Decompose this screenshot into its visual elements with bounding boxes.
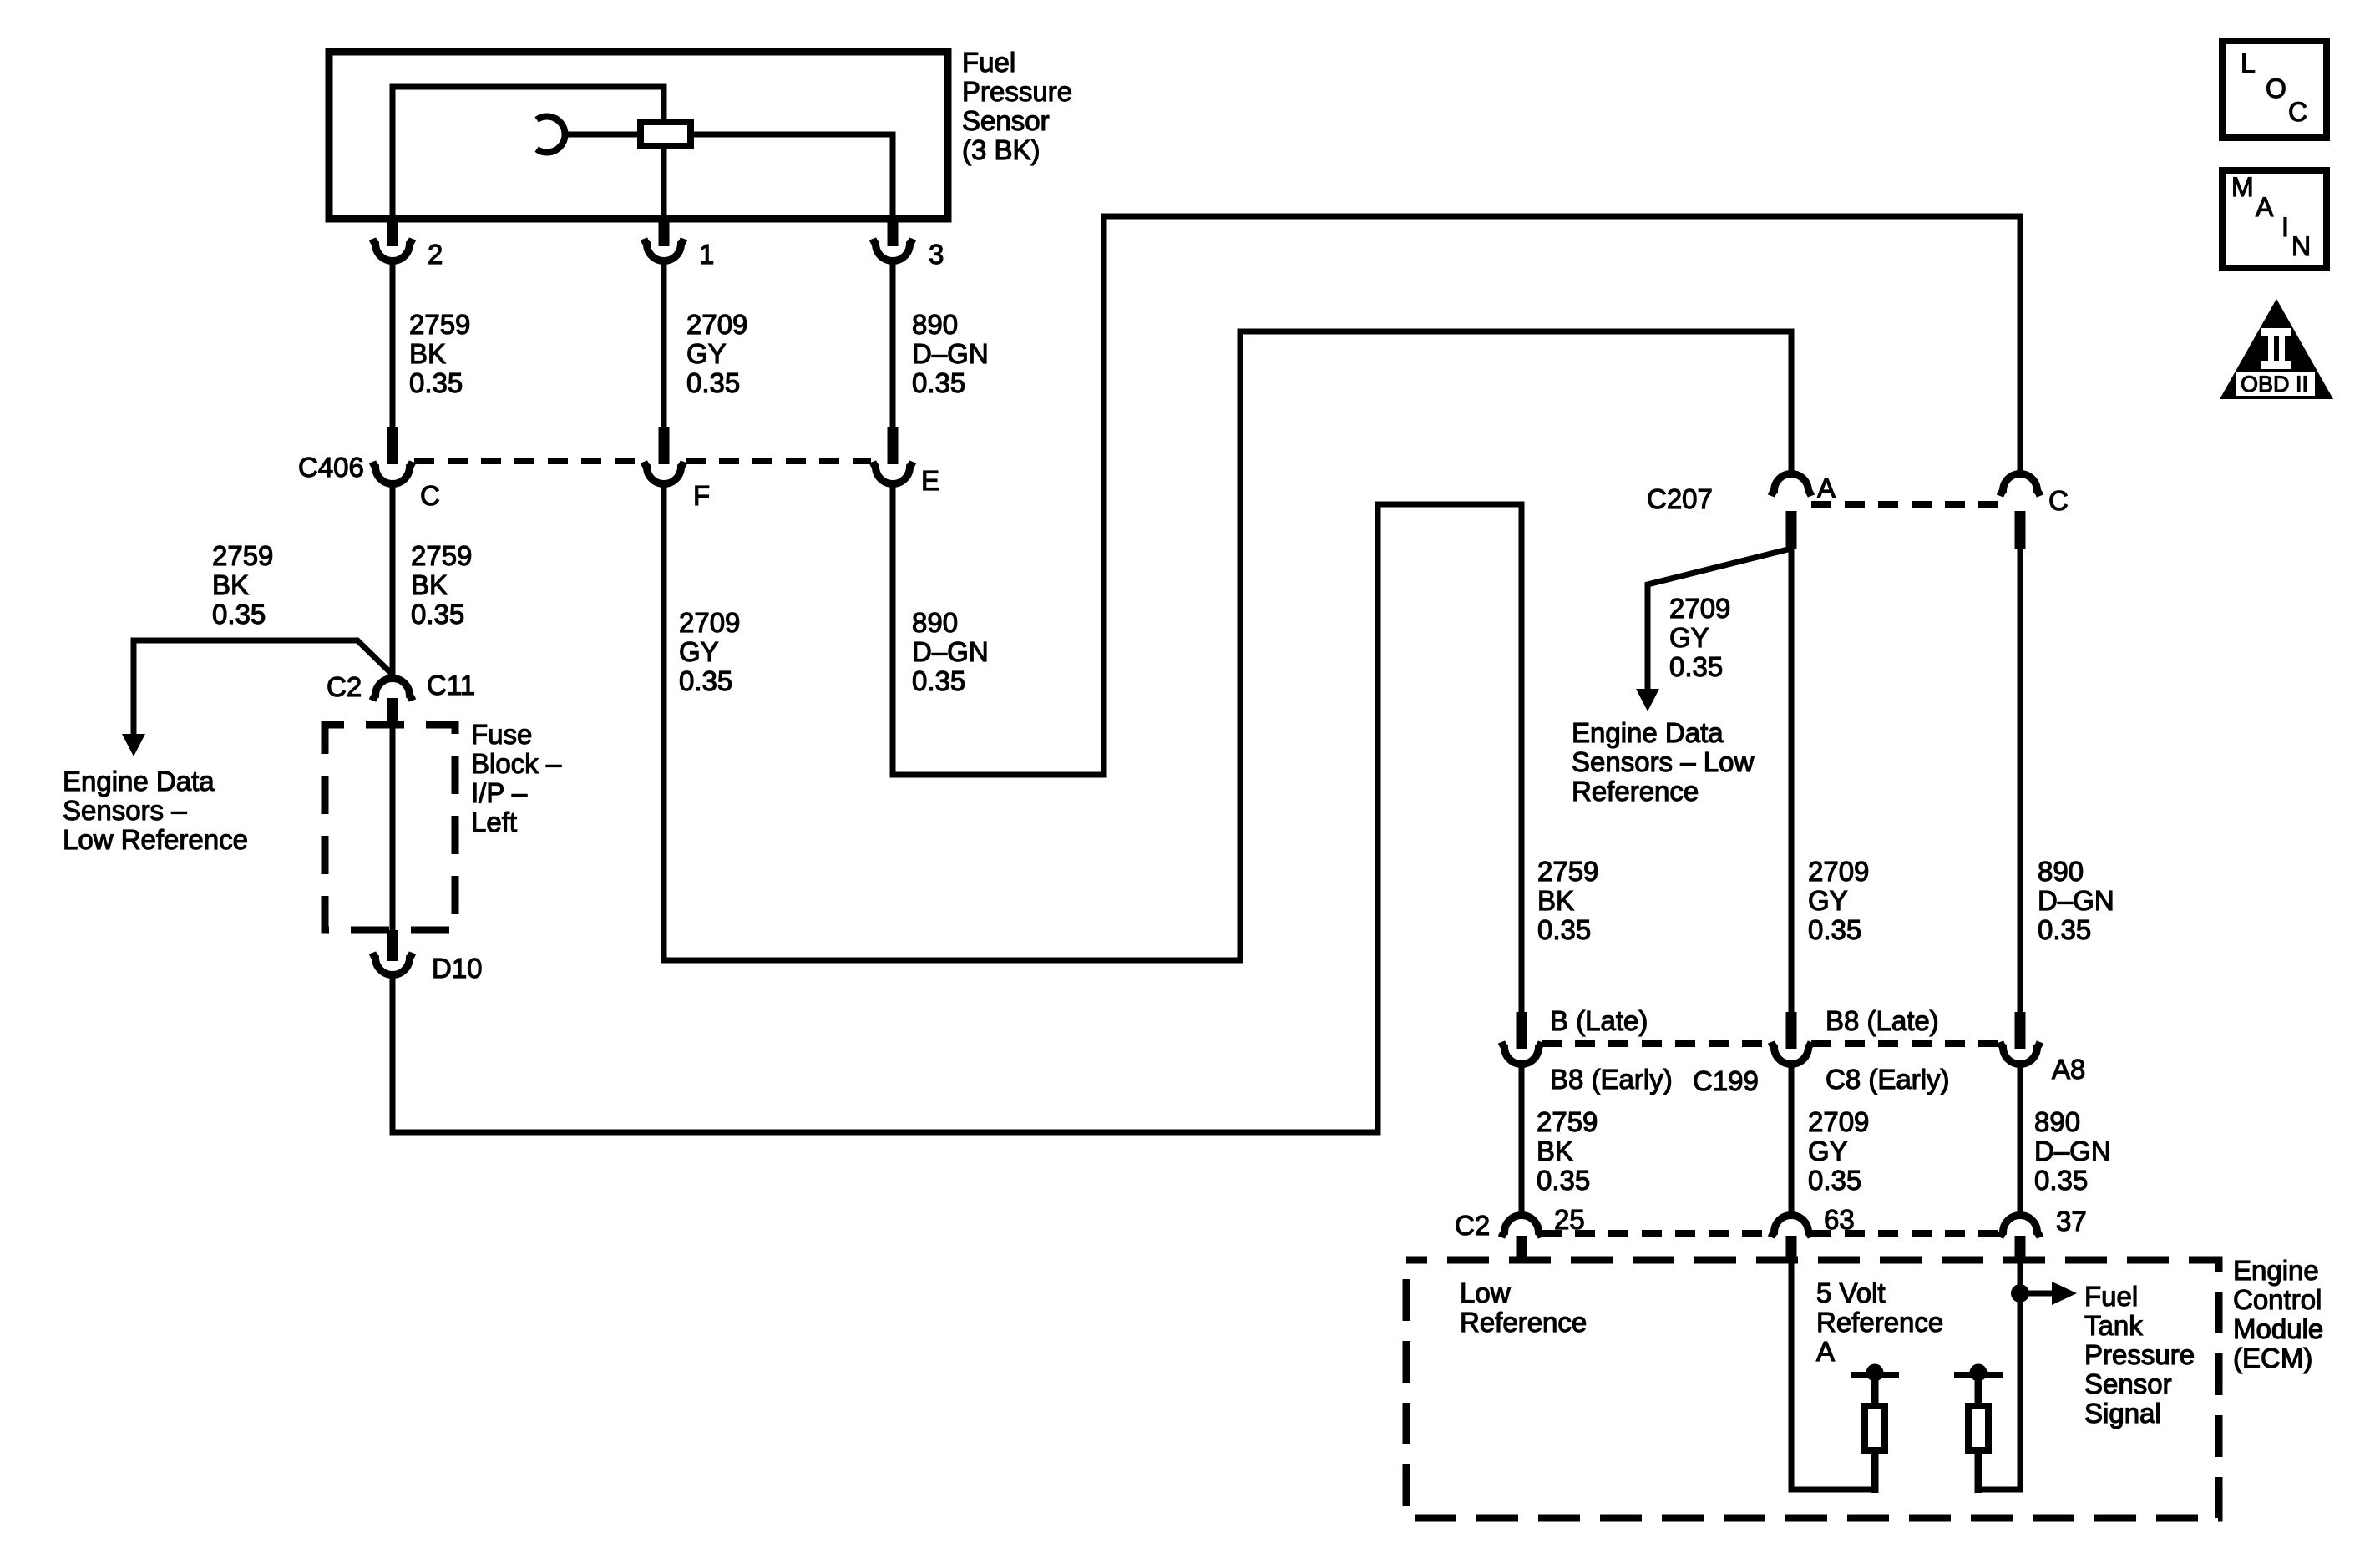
label C199 bbox=[1693, 1065, 1759, 1096]
label C406 pin E bbox=[921, 465, 939, 496]
svg-text:2: 2 bbox=[428, 239, 443, 270]
wire 2709 GY C406-F to C207-A bbox=[664, 331, 1791, 960]
sensor element rectangle bbox=[641, 122, 691, 146]
branch wire to engine data sensors low reference bbox=[134, 640, 392, 735]
svg-text:0.35: 0.35 bbox=[212, 599, 266, 630]
label B (Late) bbox=[1550, 1005, 1648, 1036]
C199 terminal at x=2145 bbox=[1771, 1042, 1811, 1065]
svg-text:GY: GY bbox=[686, 338, 727, 369]
wire 2759 BK C406-C down to C11 bbox=[390, 486, 396, 676]
C207 pin C terminal bbox=[2000, 474, 2040, 497]
wire 2709 GY C199-B8 to ECM-63 bbox=[1789, 1066, 1795, 1213]
svg-text:BK: BK bbox=[1537, 1136, 1573, 1166]
OBD II triangle symbol bbox=[2220, 299, 2333, 399]
engine control module dashed box bbox=[1406, 1260, 2219, 1518]
svg-text:O: O bbox=[2266, 73, 2286, 104]
svg-text:GY: GY bbox=[1669, 622, 1709, 653]
svg-text:I: I bbox=[2281, 212, 2289, 242]
svg-text:0.35: 0.35 bbox=[912, 665, 965, 696]
resistor R2 lower lead bbox=[1975, 1454, 1982, 1493]
C207 pin A stub bbox=[1786, 511, 1797, 549]
svg-text:B8 (Late): B8 (Late) bbox=[1826, 1005, 1939, 1036]
ECM C2 stub at x=2419 bbox=[2015, 1236, 2026, 1263]
svg-text:B (Late): B (Late) bbox=[1550, 1005, 1648, 1036]
resistor R2 body bbox=[1968, 1406, 1988, 1450]
svg-text:GY: GY bbox=[679, 636, 719, 667]
MAIN letters bbox=[2231, 172, 2311, 261]
svg-text:A: A bbox=[2256, 192, 2274, 222]
label A8 bbox=[2052, 1054, 2085, 1085]
svg-text:D–GN: D–GN bbox=[2038, 885, 2114, 916]
wire 890 D-GN C207-C to C199-A8 bbox=[2018, 549, 2023, 1014]
label Engine Data Sensors - Low Reference bbox=[63, 766, 248, 855]
C406 pin F stub bbox=[659, 427, 670, 464]
svg-text:Pressure: Pressure bbox=[962, 76, 1072, 107]
svg-text:2759: 2759 bbox=[212, 540, 273, 571]
svg-text:890: 890 bbox=[2038, 856, 2084, 887]
MAIN legend box bbox=[2222, 170, 2327, 268]
svg-text:Engine: Engine bbox=[2233, 1255, 2319, 1286]
OBD II banner bbox=[2236, 372, 2315, 397]
connector C2 dashed line left bbox=[1542, 1230, 1771, 1237]
svg-text:A: A bbox=[1816, 1336, 1835, 1367]
svg-text:I/P –: I/P – bbox=[471, 777, 528, 808]
sensor internal wire pin2 to transducer bbox=[392, 87, 664, 219]
svg-text:Signal: Signal bbox=[2084, 1398, 2161, 1429]
svg-text:Reference: Reference bbox=[1816, 1307, 1943, 1338]
wire ECM pin37 to resistor R2 bbox=[1978, 1263, 2020, 1490]
svg-text:C207: C207 bbox=[1647, 483, 1713, 514]
label 2709 GY 0.35 (F wire) bbox=[679, 607, 740, 696]
svg-text:Sensor: Sensor bbox=[962, 105, 1050, 136]
svg-text:A8: A8 bbox=[2052, 1054, 2085, 1085]
label 890 D-GN 0.35 (to C199-A8) bbox=[2038, 856, 2114, 945]
label C11 bbox=[427, 670, 475, 701]
label 2759 BK 0.35 (branch) bbox=[212, 540, 273, 630]
svg-text:Fuse: Fuse bbox=[471, 719, 532, 750]
fuse block connector D10 stub bbox=[387, 930, 398, 961]
svg-text:63: 63 bbox=[1824, 1204, 1855, 1235]
sensor internal wire element to pin1 bbox=[661, 149, 667, 219]
label 890 D-GN 0.35 (pin3 wire) bbox=[912, 309, 989, 398]
svg-text:0.35: 0.35 bbox=[2038, 914, 2091, 945]
svg-text:Module: Module bbox=[2233, 1313, 2323, 1344]
label Fuse Block - I/P - Left bbox=[471, 719, 562, 837]
label Low Reference bbox=[1460, 1277, 1587, 1338]
svg-text:BK: BK bbox=[1537, 885, 1574, 916]
svg-text:Engine Data: Engine Data bbox=[63, 766, 215, 797]
label C207 pin A bbox=[1817, 473, 1836, 503]
svg-text:0.35: 0.35 bbox=[1808, 914, 1861, 945]
connector C406 dashed line right bbox=[686, 458, 871, 464]
svg-text:C: C bbox=[2048, 485, 2069, 516]
svg-text:Sensors – Low: Sensors – Low bbox=[1572, 746, 1754, 777]
svg-text:Block –: Block – bbox=[471, 748, 562, 779]
svg-text:0.35: 0.35 bbox=[1669, 651, 1723, 682]
svg-text:25: 25 bbox=[1554, 1204, 1585, 1235]
ECM C2 terminal at x=1822 bbox=[1501, 1216, 1542, 1238]
C207 pin C stub bbox=[2015, 511, 2026, 549]
resistor R1 lower lead bbox=[1871, 1454, 1879, 1493]
svg-text:Pressure: Pressure bbox=[2084, 1339, 2195, 1370]
svg-text:2709: 2709 bbox=[1808, 1106, 1869, 1137]
C406 pin C terminal bbox=[372, 462, 413, 484]
C199 terminal at x=2419 bbox=[2000, 1042, 2040, 1065]
svg-text:0.35: 0.35 bbox=[912, 367, 965, 398]
svg-text:C8 (Early): C8 (Early) bbox=[1826, 1064, 1950, 1095]
connector C199 dashed line right bbox=[1811, 1040, 2000, 1047]
label 2759 BK 0.35 (pin2 wire) bbox=[409, 309, 470, 398]
svg-text:BK: BK bbox=[411, 569, 448, 600]
wire 890 D-GN C199-A8 to ECM-37 bbox=[2018, 1066, 2023, 1213]
C199 terminal at x=1822 bbox=[1501, 1042, 1542, 1065]
svg-text:Left: Left bbox=[471, 807, 517, 837]
connector C406 dashed line left bbox=[414, 458, 642, 464]
label C207 bbox=[1647, 483, 1713, 514]
fuel pressure sensor box bbox=[329, 52, 948, 219]
sensor pin 1 stub bbox=[659, 219, 670, 246]
sensor pin 1 terminal bbox=[644, 239, 684, 261]
sensor internal wire element to pin3 bbox=[694, 134, 893, 219]
label C8 (Early) bbox=[1826, 1064, 1950, 1095]
svg-text:Reference: Reference bbox=[1460, 1307, 1587, 1338]
svg-text:2709: 2709 bbox=[1669, 593, 1730, 624]
svg-text:2709: 2709 bbox=[1808, 856, 1869, 887]
junction dot fuel tank pressure sensor signal bbox=[2011, 1284, 2029, 1303]
LOC letters bbox=[2241, 48, 2307, 127]
svg-text:Sensors –: Sensors – bbox=[63, 795, 187, 826]
svg-text:A: A bbox=[1817, 473, 1836, 503]
svg-text:0.35: 0.35 bbox=[409, 367, 463, 398]
label 2759 BK 0.35 (right of wire) bbox=[411, 540, 472, 630]
svg-text:C199: C199 bbox=[1693, 1065, 1759, 1096]
svg-text:0.35: 0.35 bbox=[1537, 1165, 1590, 1196]
label Engine Data Sensors - Low Reference (right) bbox=[1572, 717, 1754, 807]
connector C2 dashed line right bbox=[1811, 1230, 2000, 1237]
svg-text:(3 BK): (3 BK) bbox=[962, 134, 1041, 165]
svg-text:2709: 2709 bbox=[679, 607, 740, 638]
resistor R2 5V rail bar bbox=[1954, 1372, 2003, 1378]
svg-text:2759: 2759 bbox=[1537, 1106, 1598, 1137]
svg-text:890: 890 bbox=[912, 309, 958, 340]
svg-text:Low Reference: Low Reference bbox=[63, 824, 248, 855]
junction dot R1 bbox=[1866, 1364, 1884, 1382]
svg-text:Sensor: Sensor bbox=[2084, 1368, 2172, 1399]
pin label 3 bbox=[929, 239, 944, 270]
svg-text:Fuel: Fuel bbox=[962, 47, 1015, 78]
label C406 pin F bbox=[693, 480, 710, 511]
C207 pin A terminal bbox=[1771, 474, 1811, 497]
svg-text:890: 890 bbox=[2034, 1106, 2080, 1137]
svg-text:2759: 2759 bbox=[1537, 856, 1598, 887]
wire 890 D-GN pin3 to C406-E bbox=[890, 263, 896, 431]
ECM C2 stub at x=1822 bbox=[1517, 1236, 1527, 1263]
svg-text:890: 890 bbox=[912, 607, 958, 638]
ECM C2 terminal at x=2145 bbox=[1771, 1216, 1811, 1238]
svg-text:0.35: 0.35 bbox=[679, 665, 732, 696]
label Fuel Pressure Sensor (3 BK) bbox=[962, 47, 1072, 165]
connector C199 dashed line left bbox=[1542, 1040, 1771, 1047]
svg-text:Engine Data: Engine Data bbox=[1572, 717, 1724, 748]
svg-text:Fuel: Fuel bbox=[2084, 1281, 2138, 1312]
label C2 (fuse block connector) bbox=[327, 671, 362, 702]
svg-text:D–GN: D–GN bbox=[912, 338, 989, 369]
svg-text:Reference: Reference bbox=[1572, 776, 1699, 807]
svg-text:37: 37 bbox=[2056, 1206, 2087, 1237]
junction dot R2 bbox=[1970, 1364, 1988, 1382]
svg-text:BK: BK bbox=[212, 569, 249, 600]
svg-text:Tank: Tank bbox=[2084, 1310, 2143, 1341]
svg-text:GY: GY bbox=[1808, 885, 1848, 916]
label 2709 GY 0.35 (pin1 wire) bbox=[686, 309, 747, 398]
svg-text:M: M bbox=[2231, 172, 2254, 202]
sensor transducer arc bbox=[537, 117, 565, 153]
svg-text:0.35: 0.35 bbox=[2034, 1165, 2088, 1196]
label B8 (Late) bbox=[1826, 1005, 1939, 1036]
pin label 1 bbox=[699, 239, 714, 270]
label 2709 GY 0.35 (to C199-B8) bbox=[1808, 856, 1869, 945]
wire 2709 GY pin1 to C406-F bbox=[661, 263, 667, 431]
sensor pin 3 terminal bbox=[873, 239, 913, 261]
ECM C2 stub at x=2145 bbox=[1786, 1236, 1797, 1263]
svg-text:OBD II: OBD II bbox=[2241, 372, 2308, 397]
fuse block dashed box bbox=[325, 725, 455, 930]
wire ECM pin63 to resistor R1 bbox=[1791, 1263, 1875, 1490]
svg-text:(ECM): (ECM) bbox=[2233, 1343, 2312, 1373]
label pin 63 bbox=[1824, 1204, 1855, 1235]
svg-text:5 Volt: 5 Volt bbox=[1816, 1277, 1886, 1308]
C406 pin E stub bbox=[888, 427, 899, 464]
svg-text:2759: 2759 bbox=[409, 309, 470, 340]
arrowhead engine data sensors low reference bbox=[122, 734, 145, 756]
wire 2759 BK pin2 to C406-C bbox=[390, 263, 396, 431]
branch wire to engine data sensors low reference (right) bbox=[1648, 549, 1791, 690]
svg-text:L: L bbox=[2241, 48, 2256, 78]
svg-text:C406: C406 bbox=[298, 452, 364, 483]
fuse block connector C11 stub bbox=[387, 698, 398, 725]
svg-text:0.35: 0.35 bbox=[1537, 914, 1591, 945]
C406 pin F terminal bbox=[644, 462, 684, 484]
label pin 25 bbox=[1554, 1204, 1585, 1235]
resistor R1 upper lead bbox=[1871, 1375, 1879, 1403]
svg-text:Control: Control bbox=[2233, 1284, 2322, 1315]
wire 2759 BK D10 to C199-B bbox=[392, 504, 1522, 1132]
svg-text:D10: D10 bbox=[432, 953, 483, 984]
label 890 D-GN 0.35 (to ECM 37) bbox=[2034, 1106, 2111, 1196]
C199 stub at x=2145 bbox=[1786, 1012, 1797, 1049]
label 2709 GY 0.35 (to ECM 63) bbox=[1808, 1106, 1869, 1196]
C406 pin C stub bbox=[387, 427, 398, 464]
label 890 D-GN 0.35 (E wire) bbox=[912, 607, 989, 696]
svg-text:C2: C2 bbox=[1455, 1210, 1490, 1241]
label Engine Control Module (ECM) bbox=[2233, 1255, 2323, 1373]
svg-text:C2: C2 bbox=[327, 671, 362, 702]
label C207 pin C bbox=[2048, 485, 2069, 516]
connector C207 dashed line bbox=[1811, 501, 2000, 508]
sensor internal wire arc to element bbox=[563, 132, 637, 138]
label D10 bbox=[432, 953, 483, 984]
svg-text:D–GN: D–GN bbox=[912, 636, 989, 667]
resistor R1 body bbox=[1865, 1406, 1885, 1450]
C406 pin E terminal bbox=[873, 462, 913, 484]
svg-text:N: N bbox=[2291, 231, 2311, 261]
C199 stub at x=1822 bbox=[1517, 1012, 1527, 1049]
svg-text:2759: 2759 bbox=[411, 540, 472, 571]
fuse block connector D10 terminal bbox=[372, 953, 413, 975]
svg-text:C11: C11 bbox=[427, 670, 475, 701]
label 2759 BK 0.35 (to C199-B) bbox=[1537, 856, 1598, 945]
sensor pin 2 terminal bbox=[372, 239, 413, 261]
label C406 pin C bbox=[420, 480, 440, 511]
resistor R2 upper lead bbox=[1975, 1375, 1982, 1403]
svg-text:1: 1 bbox=[699, 239, 714, 270]
label 5 Volt Reference A bbox=[1816, 1277, 1943, 1367]
resistor R1 5V rail bar bbox=[1851, 1372, 1899, 1378]
label 2759 BK 0.35 (to ECM 25) bbox=[1537, 1106, 1598, 1196]
wire 2709 GY C207-A to C199-B8 bbox=[1789, 549, 1795, 1014]
svg-text:GY: GY bbox=[1808, 1136, 1848, 1166]
svg-text:B8 (Early): B8 (Early) bbox=[1550, 1064, 1673, 1095]
fuse block connector C11 terminal bbox=[372, 678, 413, 701]
svg-text:C: C bbox=[2288, 97, 2307, 127]
OBD II roman numeral II bbox=[2261, 328, 2291, 369]
arrowhead engine data sensors low reference (right) bbox=[1636, 689, 1659, 711]
label pin 37 bbox=[2056, 1206, 2087, 1237]
sensor pin 2 stub bbox=[387, 219, 398, 246]
wire through fuse block bbox=[390, 725, 396, 930]
svg-text:2709: 2709 bbox=[686, 309, 747, 340]
label B8 (Early) bbox=[1550, 1064, 1673, 1095]
label 2709 GY 0.35 (branch) bbox=[1669, 593, 1730, 682]
arrow fuel tank pressure sensor signal bbox=[2020, 1291, 2052, 1297]
svg-text:BK: BK bbox=[409, 338, 446, 369]
svg-text:0.35: 0.35 bbox=[686, 367, 740, 398]
C199 stub at x=2419 bbox=[2015, 1012, 2026, 1049]
LOC legend box bbox=[2222, 41, 2327, 138]
ECM C2 terminal at x=2419 bbox=[2000, 1216, 2040, 1238]
svg-text:3: 3 bbox=[929, 239, 944, 270]
svg-text:E: E bbox=[921, 465, 939, 496]
svg-text:D–GN: D–GN bbox=[2034, 1136, 2111, 1166]
svg-text:0.35: 0.35 bbox=[411, 599, 464, 630]
label C406 bbox=[298, 452, 364, 483]
sensor pin 3 stub bbox=[888, 219, 899, 246]
svg-text:C: C bbox=[420, 480, 440, 511]
label Fuel Tank Pressure Sensor Signal bbox=[2084, 1281, 2195, 1429]
label C2 (ECM connector) bbox=[1455, 1210, 1490, 1241]
svg-text:F: F bbox=[693, 480, 710, 511]
svg-text:Low: Low bbox=[1460, 1277, 1511, 1308]
svg-text:0.35: 0.35 bbox=[1808, 1165, 1861, 1196]
wire 2759 BK C199-B to ECM-25 bbox=[1519, 1066, 1525, 1213]
pin label 2 bbox=[428, 239, 443, 270]
wire 890 D-GN C406-E to C207-C bbox=[893, 216, 2020, 775]
